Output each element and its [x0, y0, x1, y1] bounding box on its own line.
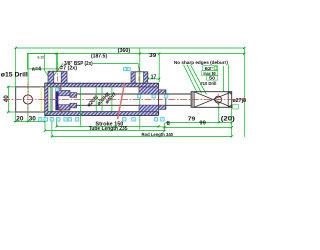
dim 8: [159, 121, 170, 127]
svg-text:ø15 Drill: ø15 Drill: [1, 71, 28, 78]
note No sharp edges (deburr): [174, 60, 228, 95]
extension line right x244: [243, 48, 245, 137]
dim (187.5) and 39 line: [27, 53, 244, 60]
svg-text:39: 39: [149, 53, 156, 59]
rod: [77, 94, 191, 105]
svg-text:17: 17: [151, 74, 156, 80]
port boss 1: [48, 71, 67, 83]
clevis block: [16, 87, 45, 112]
dim 17: [148, 73, 159, 81]
bottom dim line B: Stroke 150: [57, 122, 159, 128]
label ø15 Drill: [1, 54, 28, 95]
svg-text:8.30: 8.30: [38, 55, 45, 59]
red centerline port1: [57, 67, 59, 91]
tube top wall hatched: [48, 83, 159, 87]
grips on rod: [137, 95, 140, 98]
yellow line: [40, 87, 42, 112]
callout 50: [207, 76, 218, 82]
red centerline main: [3, 99, 246, 101]
extension line port2 center: [139, 49, 141, 130]
extension line x50.2 inside tube: [49, 84, 51, 114]
piston assembly: [56, 87, 77, 111]
svg-text:20: 20: [16, 115, 24, 122]
red centerline port2: [138, 67, 140, 91]
extension line x56.6 port1: [56, 54, 58, 71]
bottom dim line C: Tube Length 235: [45, 126, 164, 132]
svg-text:Tube Length 235: Tube Length 235: [89, 126, 128, 132]
extension line left x16: [15, 48, 17, 87]
rod end hole: [215, 96, 222, 103]
callout #10 Drill: [200, 81, 217, 87]
dim (360) line: [16, 48, 245, 54]
dim 40 vertical left: [4, 87, 15, 112]
dim 20 30: [13, 104, 46, 131]
gland nose: [159, 90, 166, 94]
rod end block: [191, 92, 232, 108]
svg-text:40: 40: [4, 95, 10, 103]
label 3/8" BSP (2x) with leaders: [57, 61, 139, 71]
svg-text:#10 Drill: #10 Drill: [200, 81, 217, 87]
cap end wall hatched: [45, 83, 48, 115]
tube bottom wall hatched: [48, 112, 159, 116]
red centerline clevis hole: [27, 83, 29, 116]
svg-text:ø27j8: ø27j8: [233, 98, 247, 104]
callout max 80: [202, 71, 218, 77]
seal maroon bottom: [59, 109, 61, 111]
tube outline lines: [45, 82, 159, 84]
svg-text:No sharp edges (deburr): No sharp edges (deburr): [174, 60, 228, 66]
bottom extension lines: [51, 117, 53, 137]
inner cap face line: [51, 87, 53, 112]
clevis pin hole: [23, 95, 32, 104]
rod end coupler: [190, 92, 192, 108]
red diagonal line: [118, 83, 125, 119]
dim 99 line: [164, 121, 231, 128]
bottom dim line D: Rod Length 340: [52, 132, 232, 138]
label #7 (2x): [54, 65, 78, 75]
svg-text:(360): (360): [118, 48, 131, 54]
grips above port2: [124, 68, 127, 71]
cyan grip squares bottom row: [39, 68, 168, 122]
svg-text:(187.5): (187.5): [91, 54, 107, 60]
callout 62°: [203, 66, 218, 72]
red crosshair rod end hole: [217, 94, 219, 106]
bore label leader lines: [79, 87, 81, 126]
gland head hatched: [139, 87, 166, 112]
dimension tick marks: [7, 47, 245, 138]
svg-text:30: 30: [29, 115, 37, 122]
svg-text:79: 79: [188, 117, 196, 123]
bottom dim line A: 79 and (20): [167, 116, 235, 122]
port boss 2: [131, 72, 148, 83]
bore labels rotated: [86, 92, 118, 109]
seal maroon top: [59, 87, 61, 89]
svg-text:#7 (2x): #7 (2x): [60, 65, 77, 71]
label ø27j8: [232, 99, 234, 101]
svg-text:a=4: a=4: [32, 67, 41, 73]
weld callout box a=4: [27, 54, 57, 80]
svg-text:50: 50: [209, 76, 215, 82]
svg-text:Rod Length 340: Rod Length 340: [142, 132, 174, 138]
svg-text:99: 99: [199, 121, 205, 127]
extension line x159 39/17 dim: [158, 54, 160, 82]
